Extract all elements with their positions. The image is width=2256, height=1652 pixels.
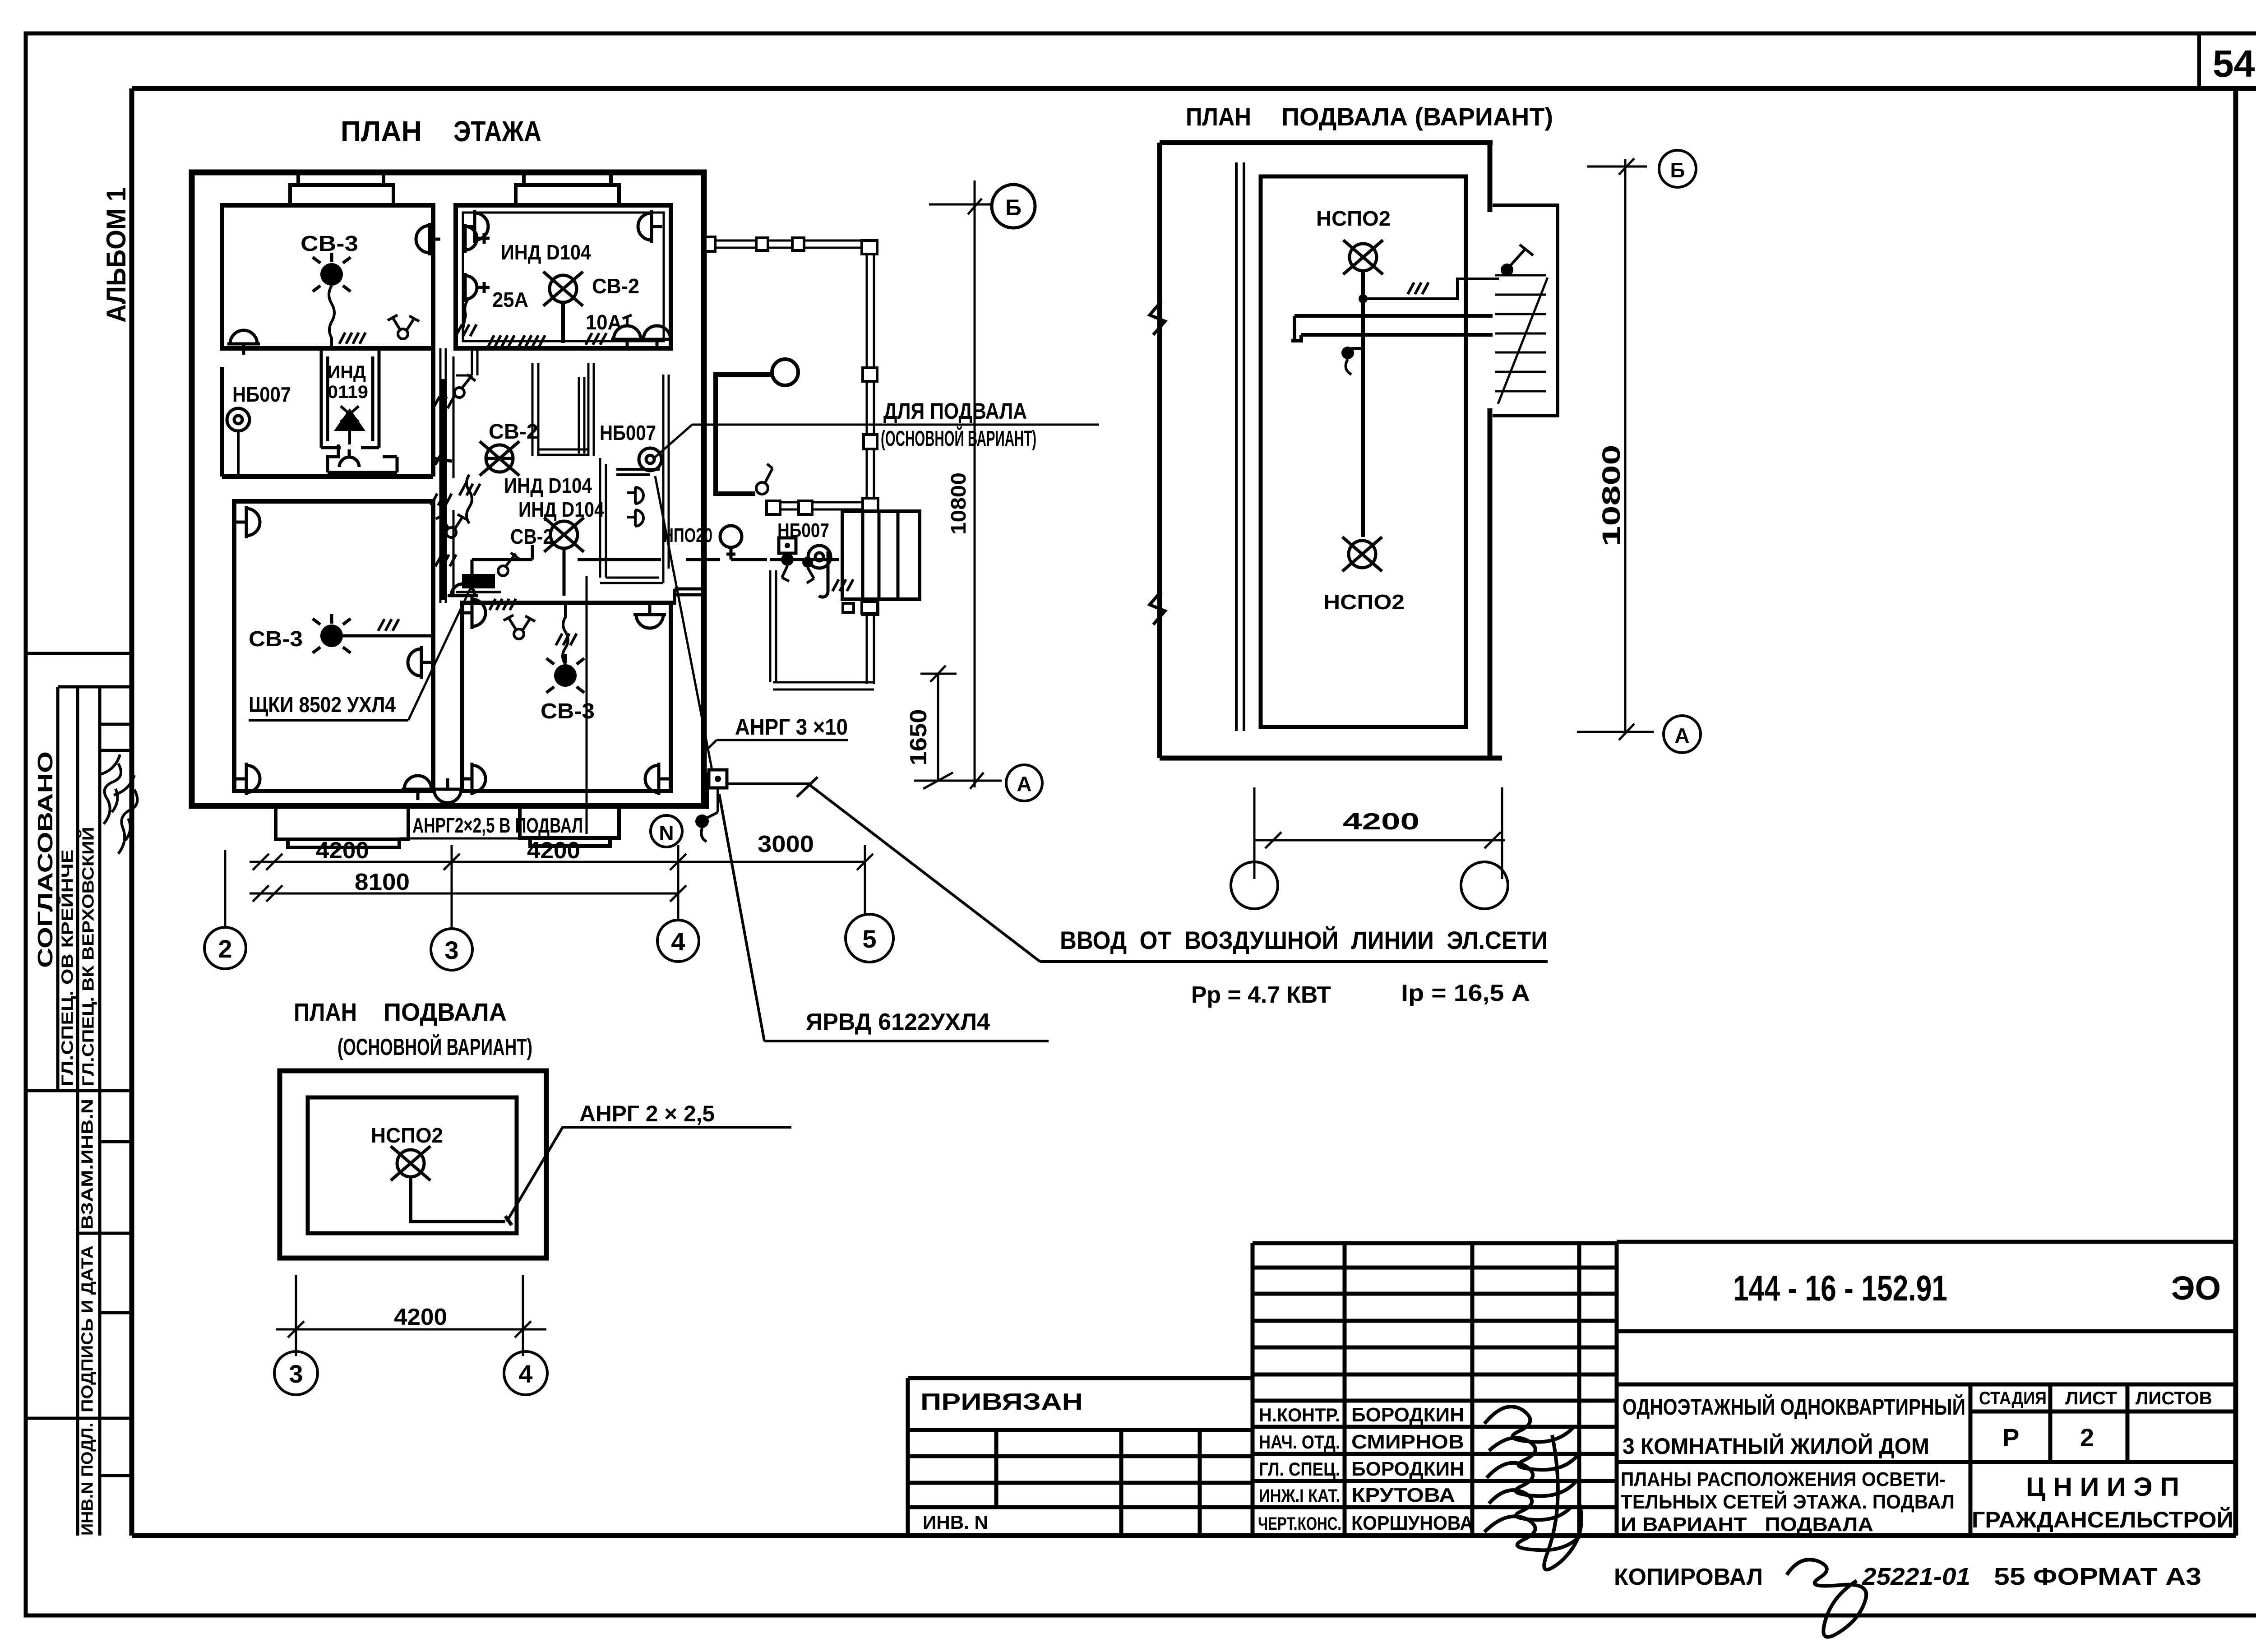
annotation ввод от воздушной линии [1040, 926, 1548, 1008]
svg-text:(ОСНОВНОЙ ВАРИАНТ): (ОСНОВНОЙ ВАРИАНТ) [881, 426, 1036, 451]
svg-text:ИНЖ.I КАТ.: ИНЖ.I КАТ. [1259, 1486, 1340, 1506]
copy line [1614, 1559, 2201, 1637]
label 25А [492, 288, 528, 311]
label ГЛ.СПЕЦ. ОВ КРЕЙНЧЕ (rotated) [58, 850, 77, 1087]
veranda rail top [705, 237, 865, 251]
wire pair right of bathroom [579, 377, 584, 453]
svg-text:ЩКИ 8502 УХЛ4: ЩКИ 8502 УХЛ4 [249, 693, 396, 717]
svg-text:ПОДВАЛА (ВАРИАНТ): ПОДВАЛА (ВАРИАНТ) [1281, 102, 1553, 131]
svg-text:ЛИСТ: ЛИСТ [2065, 1388, 2117, 1408]
svg-text:Р: Р [2002, 1423, 2019, 1452]
switch room4 left of corridor [436, 514, 467, 537]
svg-text:4: 4 [671, 927, 685, 956]
svg-text:2: 2 [218, 935, 232, 963]
svg-text:АЛЬБОМ 1: АЛЬБОМ 1 [101, 187, 131, 323]
svg-text:ИНВ.N ПОДЛ.: ИНВ.N ПОДЛ. [78, 1423, 97, 1536]
wire vestibule cross [770, 551, 853, 597]
label СВ-2 corridor [489, 420, 538, 443]
svg-text:ПОДПИСЬ И ДАТА: ПОДПИСЬ И ДАТА [78, 1245, 97, 1412]
switch mid [498, 553, 519, 576]
axis Б basement2 [1587, 150, 1696, 187]
label СОГЛАСОВАНО (rotated) [33, 751, 57, 968]
closet ИНД 0119 walls [321, 351, 379, 448]
axis circle 3 basement [274, 1351, 318, 1395]
label ЩКИ 8502 УХЛ4 [249, 693, 408, 720]
svg-text:СТАДИЯ: СТАДИЯ [1979, 1388, 2047, 1408]
svg-text:25221-01: 25221-01 [1862, 1563, 1970, 1590]
corner lamp room4 bottom-left [236, 763, 260, 795]
axis circle 4 [657, 920, 699, 962]
luminaire СВ-3 room4 [313, 614, 351, 653]
wire to подвал vertical [586, 576, 588, 834]
svg-text:ОДНОЭТАЖНЫЙ ОДНОКВАРТИРНЫЙ: ОДНОЭТАЖНЫЙ ОДНОКВАРТИРНЫЙ [1623, 1394, 1965, 1420]
dim 1650 [906, 666, 957, 789]
corner lamp room5 bottom-left [461, 763, 485, 795]
svg-text:ЛИСТОВ: ЛИСТОВ [2136, 1388, 2212, 1408]
label НСПО2 bottom [1323, 590, 1405, 614]
label ПОДПИСЬ И ДАТА (rotated) [78, 1245, 97, 1412]
svg-text:И ВАРИАНТ ПОДВАЛА: И ВАРИАНТ ПОДВАЛА [1621, 1513, 1873, 1536]
svg-text:(ОСНОВНОЙ ВАРИАНТ): (ОСНОВНОЙ ВАРИАНТ) [337, 1034, 532, 1060]
wire-count hatch room1 [339, 333, 365, 344]
svg-text:АНРГ2×2,5 В ПОДВАЛ: АНРГ2×2,5 В ПОДВАЛ [412, 814, 583, 837]
room 3 walls (mid-left) [222, 348, 433, 477]
label ИНВ.N ПОДЛ. (rotated) [78, 1423, 97, 1536]
luminaire СВ-2 room2 [543, 272, 583, 306]
wavy wire corridor left [459, 475, 480, 523]
svg-text:ПЛАН: ПЛАН [341, 115, 422, 148]
twin lamps room4 bottom [402, 776, 464, 803]
svg-text:10800: 10800 [1597, 445, 1625, 546]
socket room2 upper [465, 224, 490, 253]
label 10А [586, 310, 622, 334]
svg-text:ПОДВАЛА: ПОДВАЛА [384, 998, 507, 1026]
porch slab bottom left [276, 806, 408, 847]
room 2 walls (top-right) [456, 205, 671, 348]
socket НБ007 room3 [227, 408, 250, 474]
wire lamp room5 up [556, 605, 577, 664]
wire thick L to switch [716, 375, 772, 494]
svg-text:ИНД D104: ИНД D104 [518, 498, 604, 521]
porch slab bottom right [520, 806, 619, 846]
label НПО20 [663, 524, 712, 546]
svg-text:ЧЕРТ.КОНС.: ЧЕРТ.КОНС. [1258, 1514, 1341, 1534]
label ВЗАМ.ИНВ.N (rotated) [78, 1099, 97, 1230]
svg-text:3000: 3000 [758, 831, 814, 857]
label НСПО2 top [1316, 207, 1391, 230]
svg-text:ЭО: ЭО [2171, 1269, 2221, 1307]
luminaire СВ-3 room1 [313, 253, 351, 292]
annotation ЯРВД 6122УХЛ4 [719, 794, 1049, 1041]
object name [1623, 1394, 1965, 1459]
axis circle 3 [431, 929, 472, 970]
svg-text:ГЛ.СПЕЦ. ОВ КРЕЙНЧЕ: ГЛ.СПЕЦ. ОВ КРЕЙНЧЕ [58, 850, 77, 1087]
luminaire СВ-2 lower corridor [544, 518, 584, 596]
svg-text:5: 5 [862, 925, 876, 953]
doc number 144-16-152.91 [1733, 1268, 1947, 1308]
page number box [2199, 33, 2255, 88]
corner lamp room5 bottom-right [645, 763, 670, 795]
socket room2 lower [465, 273, 490, 302]
sockets pair on kitchen wall [627, 487, 643, 526]
svg-text:АНРГ 2 × 2,5: АНРГ 2 × 2,5 [579, 1101, 715, 1126]
corner lamp room5 top-right [633, 604, 666, 628]
svg-text:ИНВ. N: ИНВ. N [923, 1512, 988, 1533]
wire lamp room4 to wall [343, 619, 431, 636]
label ИНД 0119 [328, 362, 368, 402]
switch near bathroom [454, 375, 476, 398]
title block: main right block grid [1617, 1242, 2236, 1536]
doc code ЭО [2171, 1269, 2221, 1307]
label НБ007 vestibule [777, 519, 829, 541]
small posts below steps [843, 602, 877, 613]
svg-text:Рр = 4.7 КВТ: Рр = 4.7 КВТ [1191, 982, 1331, 1008]
label СВ-3 room5 [541, 699, 595, 723]
svg-text:10800: 10800 [947, 472, 970, 535]
socket НБ007 vestibule [779, 538, 831, 568]
luminaire НСПО2 bottom [1342, 537, 1382, 571]
svg-text:СВ-3: СВ-3 [300, 232, 358, 256]
basement2 stair bay [1493, 205, 1558, 416]
leader to panel [408, 580, 474, 720]
lamp circle veranda [772, 359, 798, 385]
svg-text:25А: 25А [492, 288, 528, 311]
luminaire СВ-3 room5 [546, 654, 584, 693]
signatures in title block [1484, 1407, 1582, 1569]
bathroom walls [532, 363, 594, 456]
basement2 inner room [1261, 176, 1466, 727]
vestibule wall jog [675, 589, 704, 605]
veranda rail north (porch) [767, 501, 863, 514]
svg-text:Н.КОНТР.: Н.КОНТР. [1259, 1404, 1340, 1425]
wire: lamp stem room2 [561, 302, 565, 343]
wires: corridor horizontal runs [472, 458, 767, 587]
label НСПО2 basement [371, 1124, 443, 1147]
svg-text:Б: Б [1005, 195, 1022, 220]
axis extension lines [225, 850, 865, 929]
svg-text:4200: 4200 [394, 1304, 447, 1330]
axis А floor plan [914, 765, 1042, 801]
switch room1 [388, 315, 419, 339]
junction dots corridor [781, 553, 814, 583]
hatches room2 bottom wall [488, 333, 606, 347]
label АЛЬБОМ 1 (rotated) [101, 187, 131, 323]
label НБ007 kitchen [600, 421, 656, 444]
basement2 outer walls [1160, 143, 1502, 758]
switch room5 top [504, 615, 535, 639]
corner lamp room5 top-left [461, 597, 485, 629]
label АНРГ 3х10 [707, 714, 848, 750]
dim line row2 (8100) [250, 869, 686, 902]
heater steps room3 [328, 444, 397, 472]
cable drop at house corner [695, 770, 727, 842]
corner lamp room2 top-right [638, 210, 662, 243]
svg-text:Б: Б [1670, 158, 1685, 182]
svg-text:Ц Н И И Э П: Ц Н И И Э П [2026, 1472, 2179, 1502]
svg-text:0119: 0119 [328, 382, 368, 402]
axis А basement2 [1577, 716, 1701, 753]
wall lamp room1 bottom-left [227, 330, 260, 355]
svg-text:ИНД D104: ИНД D104 [501, 241, 591, 264]
svg-text:КОПИРОВАЛ: КОПИРОВАЛ [1614, 1564, 1763, 1590]
wire from box east with cross [727, 777, 818, 797]
basement walls inner [308, 1097, 517, 1233]
svg-text:НБ007: НБ007 [600, 421, 656, 444]
svg-text:НСПО2: НСПО2 [1323, 590, 1405, 614]
wire supply diagonal [655, 476, 712, 770]
dim line row1 (4200 4200 3000) [250, 831, 873, 879]
vent cone symbol [334, 406, 365, 444]
label ИНД D104 room2 [501, 241, 591, 264]
veranda rail east [862, 241, 878, 684]
wall lamps room4 right wall [408, 646, 432, 679]
svg-text:4200: 4200 [316, 838, 369, 864]
svg-text:ИНД D104: ИНД D104 [504, 474, 592, 497]
dim 10800 basement2 [1597, 159, 1625, 731]
luminaire НПО20 [720, 526, 742, 560]
axis circle 2 [204, 927, 246, 969]
svg-text:СОГЛАСОВАНО: СОГЛАСОВАНО [33, 751, 57, 968]
veranda rail south [773, 682, 874, 689]
svg-text:СВ-2: СВ-2 [510, 525, 553, 548]
basement walls outer [280, 1071, 546, 1258]
svg-text:2: 2 [2080, 1423, 2094, 1452]
circle N [651, 815, 682, 847]
svg-text:СВ-2: СВ-2 [592, 274, 639, 298]
sheet name [1621, 1468, 1955, 1536]
margin signature 1 [100, 754, 121, 824]
room 4 walls (bottom-left) [234, 501, 433, 791]
svg-text:ДЛЯ ПОДВАЛА: ДЛЯ ПОДВАЛА [883, 398, 1027, 424]
svg-text:4200: 4200 [1343, 809, 1419, 835]
label ИНД D104 second [518, 498, 604, 521]
svg-text:3: 3 [444, 936, 458, 964]
svg-text:54: 54 [2213, 42, 2255, 85]
wall: house outer contour [192, 172, 704, 806]
wire room2 left with hatch [456, 298, 476, 336]
twin wall lamps room2 bottom [611, 315, 673, 350]
name rows [1258, 1404, 1473, 1534]
label СВ-3 room4 [249, 627, 303, 651]
svg-text:А: А [1674, 724, 1689, 747]
kitchen walls [600, 375, 669, 583]
svg-text:СМИРНОВ: СМИРНОВ [1351, 1431, 1464, 1453]
label ГЛ.СПЕЦ. ВК ВЕРХОВСКИЙ (rotated) [79, 827, 97, 1087]
svg-text:4200: 4200 [527, 838, 580, 864]
entry steps [842, 511, 920, 599]
svg-text:1650: 1650 [906, 709, 932, 766]
basement2 wall jog to stairs [1291, 316, 1493, 341]
leader для подвала [655, 398, 1099, 457]
wire: lamp to wall room1 [329, 286, 334, 347]
svg-text:N: N [659, 821, 674, 845]
svg-text:СВ-3: СВ-3 [249, 627, 303, 651]
axis circle right basement2 [1461, 862, 1508, 909]
svg-text:ЯРВД 6122УХЛ4: ЯРВД 6122УХЛ4 [806, 1009, 990, 1035]
luminaire СВ-2 corridor [480, 441, 519, 476]
leader ввод diagonal [810, 785, 1040, 962]
title План этажа [341, 115, 541, 148]
svg-text:ВВОД ОТ ВОЗДУШНОЙ ЛИНИИ ЭЛ: ВВОД ОТ ВОЗДУШНОЙ ЛИНИИ ЭЛ.СЕТИ [1060, 926, 1548, 954]
veranda rail west [770, 570, 776, 682]
svg-text:СВ-2: СВ-2 [489, 420, 538, 443]
title block: ПРИВЯЗАН block grid [908, 1378, 1253, 1536]
svg-text:ПРИВЯЗАН: ПРИВЯЗАН [920, 1389, 1083, 1415]
title План подвала [294, 998, 532, 1060]
luminaire НСПО2 basement [391, 1146, 430, 1180]
svg-text:БОРОДКИН: БОРОДКИН [1351, 1404, 1464, 1426]
org name [1972, 1472, 2233, 1532]
svg-text:ВЗАМ.ИНВ.N: ВЗАМ.ИНВ.N [78, 1099, 97, 1230]
margin signature 2 [114, 775, 137, 854]
svg-text:ЭТАЖА: ЭТАЖА [453, 115, 541, 148]
svg-text:НСПО2: НСПО2 [371, 1124, 443, 1147]
panel ЩКИ box [456, 574, 501, 592]
svg-text:ПЛАН: ПЛАН [294, 998, 357, 1026]
svg-text:ГРАЖДАНСЕЛЬСТРОЙ: ГРАЖДАНСЕЛЬСТРОЙ [1972, 1507, 2233, 1532]
room 1 walls (top-left) [222, 205, 433, 348]
svg-text:3: 3 [289, 1360, 303, 1388]
chimney block left [290, 172, 393, 205]
svg-text:ГЛ.СПЕЦ. ВК ВЕРХОВСКИЙ: ГЛ.СПЕЦ. ВК ВЕРХОВСКИЙ [79, 827, 97, 1087]
svg-text:ГЛ. СПЕЦ.: ГЛ. СПЕЦ. [1259, 1458, 1340, 1480]
left margin column grid [27, 653, 132, 1536]
svg-text:БОРОДКИН: БОРОДКИН [1351, 1458, 1464, 1480]
socket НБ007 kitchen [616, 448, 661, 475]
svg-text:144 - 16 - 152.91: 144 - 16 - 152.91 [1733, 1268, 1947, 1308]
wire basement [411, 1178, 512, 1225]
corner lamp room4 top-left [236, 506, 260, 538]
room 5 walls (bottom-middle) [462, 603, 671, 791]
svg-text:НСПО2: НСПО2 [1316, 207, 1391, 230]
break marks on left [1150, 301, 1165, 625]
svg-text:НБ007: НБ007 [232, 383, 291, 406]
svg-text:8100: 8100 [355, 869, 410, 895]
leader АНРГ 2х2,5 [507, 1101, 791, 1222]
svg-text:4: 4 [518, 1360, 532, 1388]
svg-text:ПЛАН: ПЛАН [1186, 102, 1251, 131]
label ИНД D104 corridor [504, 474, 592, 497]
label СВ-3 room1 [300, 232, 358, 256]
wire stub room2 to corridor [456, 350, 477, 375]
luminaire НСПО2 top [1343, 240, 1383, 274]
basement2 inner vertical [1236, 162, 1244, 731]
svg-text:ТЕЛЬНЫХ СЕТЕЙ ЭТАЖА. ПОДВАЛ: ТЕЛЬНЫХ СЕТЕЙ ЭТАЖА. ПОДВАЛ [1621, 1490, 1955, 1513]
switch veranda [756, 464, 772, 494]
svg-text:НПО20: НПО20 [663, 524, 712, 546]
corridor walls [440, 348, 453, 603]
axis circle 5 [846, 914, 893, 962]
svg-text:АНРГ 3 ×10: АНРГ 3 ×10 [735, 714, 848, 740]
svg-text:КРУТОВА: КРУТОВА [1351, 1484, 1455, 1506]
wire basement2 [1341, 245, 1533, 537]
svg-text:А: А [1017, 772, 1031, 796]
wall lamp room1 right [416, 223, 440, 255]
axis circle left basement2 [1231, 862, 1278, 909]
chimney block right [516, 172, 619, 205]
hatch room5 top [490, 599, 516, 610]
dim 4200 basement2 [1253, 787, 1505, 879]
label СВ-2 lower [510, 525, 553, 548]
stage cells [1979, 1388, 2212, 1452]
svg-text:Iр = 16,5 А: Iр = 16,5 А [1401, 980, 1530, 1006]
svg-text:НАЧ. ОТД.: НАЧ. ОТД. [1259, 1431, 1340, 1453]
svg-text:КОРШУНОВА: КОРШУНОВА [1351, 1512, 1473, 1534]
title План подвала (вариант) [1186, 102, 1553, 131]
label СВ-2 room2 [592, 274, 639, 298]
title block: revision/name table grid [1253, 1243, 1617, 1536]
corner lamp room2 top-left [464, 210, 488, 243]
ceiling rose bottom corridor [448, 584, 478, 596]
label АНРГ2х2,5 в подвал [399, 814, 593, 838]
svg-text:ПЛАНЫ РАСПОЛОЖЕНИЯ ОСВЕТИ-: ПЛАНЫ РАСПОЛОЖЕНИЯ ОСВЕТИ- [1621, 1468, 1946, 1490]
label НБ007 room3 [232, 383, 291, 406]
svg-text:3 КОМНАТНЫЙ ЖИЛОЙ ДОМ: 3 КОМНАТНЫЙ ЖИЛОЙ ДОМ [1623, 1433, 1929, 1459]
dim 10800 floor plan [947, 180, 975, 787]
axis Б floor plan [929, 185, 1035, 228]
dim 4200 basement [276, 1275, 546, 1356]
axis circle 4 basement [504, 1351, 547, 1395]
svg-text:ИНД: ИНД [328, 362, 366, 382]
svg-text:55 ФОРМАТ А3: 55 ФОРМАТ А3 [1994, 1563, 2201, 1590]
wires: corridor verticals with hatches [431, 379, 456, 600]
